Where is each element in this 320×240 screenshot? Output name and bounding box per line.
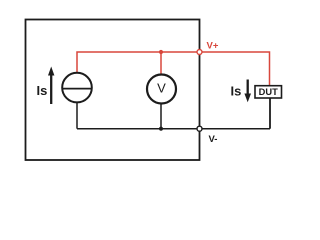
svg-text:V: V (157, 80, 166, 95)
current source I1 (62, 73, 92, 103)
svg-text:DUT: DUT (259, 87, 278, 97)
junction dot on V- rail at voltmeter (159, 127, 163, 131)
svg-text:V+: V+ (207, 41, 219, 52)
wire: black bottom V- rail (77, 128, 270, 130)
node V- terminal (open circle on box edge) (197, 126, 202, 131)
svg-text:Is: Is (231, 84, 242, 99)
wire: red V+ rail from current source up and across to DUT top (77, 52, 270, 86)
arrow: Is up arrow (left) (48, 67, 54, 105)
svg-text:Is: Is (37, 83, 48, 98)
wire: black from DUT bottom down to V- rail (269, 98, 271, 129)
arrow: Is down arrow (right) (244, 80, 251, 103)
outer enclosure box (26, 20, 200, 161)
wire: black from current source bottom down to V- rail (76, 103, 78, 129)
DUT box (255, 86, 282, 98)
svg-text:V-: V- (209, 134, 218, 145)
voltmeter V1 (147, 75, 176, 104)
wire: black from voltmeter bottom down to V- rail (160, 104, 162, 129)
junction dot on V+ rail at voltmeter (159, 50, 163, 54)
wire: red stub from V+ rail down to voltmeter top (160, 52, 162, 75)
node V+ terminal (open circle on box edge) (197, 50, 202, 55)
